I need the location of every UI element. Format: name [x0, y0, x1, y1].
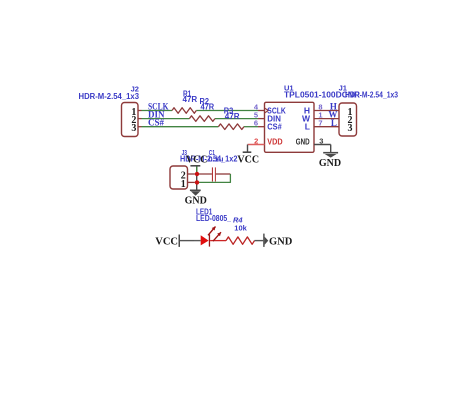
svg-text:10k: 10k — [234, 223, 247, 232]
svg-text:47R: 47R — [183, 95, 198, 104]
svg-text:VCC: VCC — [237, 154, 259, 165]
svg-text:VCC: VCC — [155, 236, 178, 247]
svg-text:3: 3 — [348, 123, 353, 134]
svg-text:VDD: VDD — [267, 136, 282, 146]
svg-text:HDR-M-2.54_1x3: HDR-M-2.54_1x3 — [79, 92, 140, 101]
svg-text:47R: 47R — [201, 102, 215, 111]
svg-text:L: L — [305, 122, 310, 132]
svg-text:GND: GND — [185, 196, 207, 207]
svg-text:L: L — [331, 118, 337, 128]
svg-text:3: 3 — [131, 123, 136, 134]
svg-text:CS#: CS# — [267, 122, 282, 132]
svg-text:1: 1 — [181, 179, 186, 190]
svg-text:GND: GND — [296, 136, 310, 146]
svg-text:LED-0805_: LED-0805_ — [196, 214, 231, 223]
svg-text:CS#: CS# — [148, 118, 165, 128]
svg-text:47R: 47R — [225, 112, 240, 121]
svg-text:GND: GND — [319, 158, 341, 169]
svg-text:VCC: VCC — [186, 155, 208, 166]
svg-text:HDR-M-2.54_1x3: HDR-M-2.54_1x3 — [345, 91, 398, 100]
svg-text:GND: GND — [269, 237, 293, 248]
svg-text:0.1u: 0.1u — [208, 155, 223, 164]
svg-text:6: 6 — [254, 119, 258, 128]
